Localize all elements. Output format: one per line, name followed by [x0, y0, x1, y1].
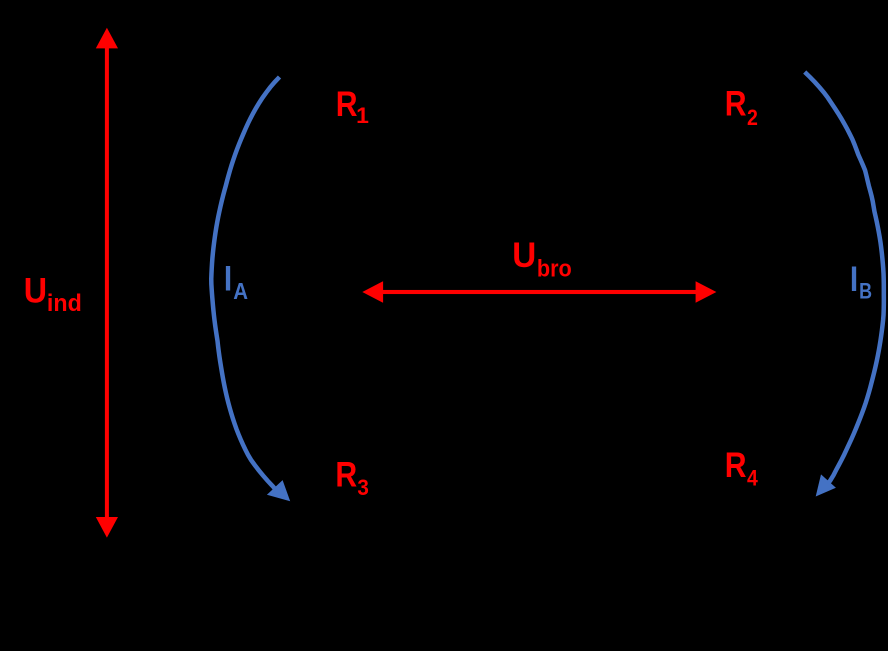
voltage arrow Uind (vertical double-headed red arrow): [96, 28, 118, 538]
svg-text:R: R: [725, 85, 747, 124]
svg-text:R: R: [335, 455, 357, 494]
bridge voltage arrow Ubro (horizontal double-headed red arrow): [362, 281, 716, 303]
current arrow IB (right blue arc): [805, 72, 884, 497]
svg-text:2: 2: [747, 105, 758, 130]
svg-text:I: I: [224, 260, 232, 299]
svg-text:ind: ind: [47, 290, 82, 317]
svg-text:U: U: [24, 272, 47, 311]
label IB: [850, 260, 872, 304]
svg-text:I: I: [850, 260, 858, 299]
current arrow IA (left blue arc): [211, 77, 290, 501]
svg-text:A: A: [233, 278, 248, 304]
resistor label R4: [725, 446, 759, 491]
svg-text:R: R: [336, 85, 358, 124]
svg-text:1: 1: [356, 103, 369, 128]
svg-text:B: B: [859, 279, 872, 304]
svg-text:U: U: [512, 236, 536, 275]
resistor label R2: [725, 85, 758, 131]
resistor label R3: [335, 455, 369, 500]
svg-text:4: 4: [747, 466, 758, 491]
svg-text:bro: bro: [537, 256, 572, 283]
svg-text:3: 3: [357, 475, 369, 500]
label Uind: [24, 272, 82, 318]
svg-text:R: R: [725, 446, 747, 485]
label IA: [224, 260, 248, 304]
resistor label R1: [336, 85, 369, 128]
label Ubro: [512, 236, 572, 283]
